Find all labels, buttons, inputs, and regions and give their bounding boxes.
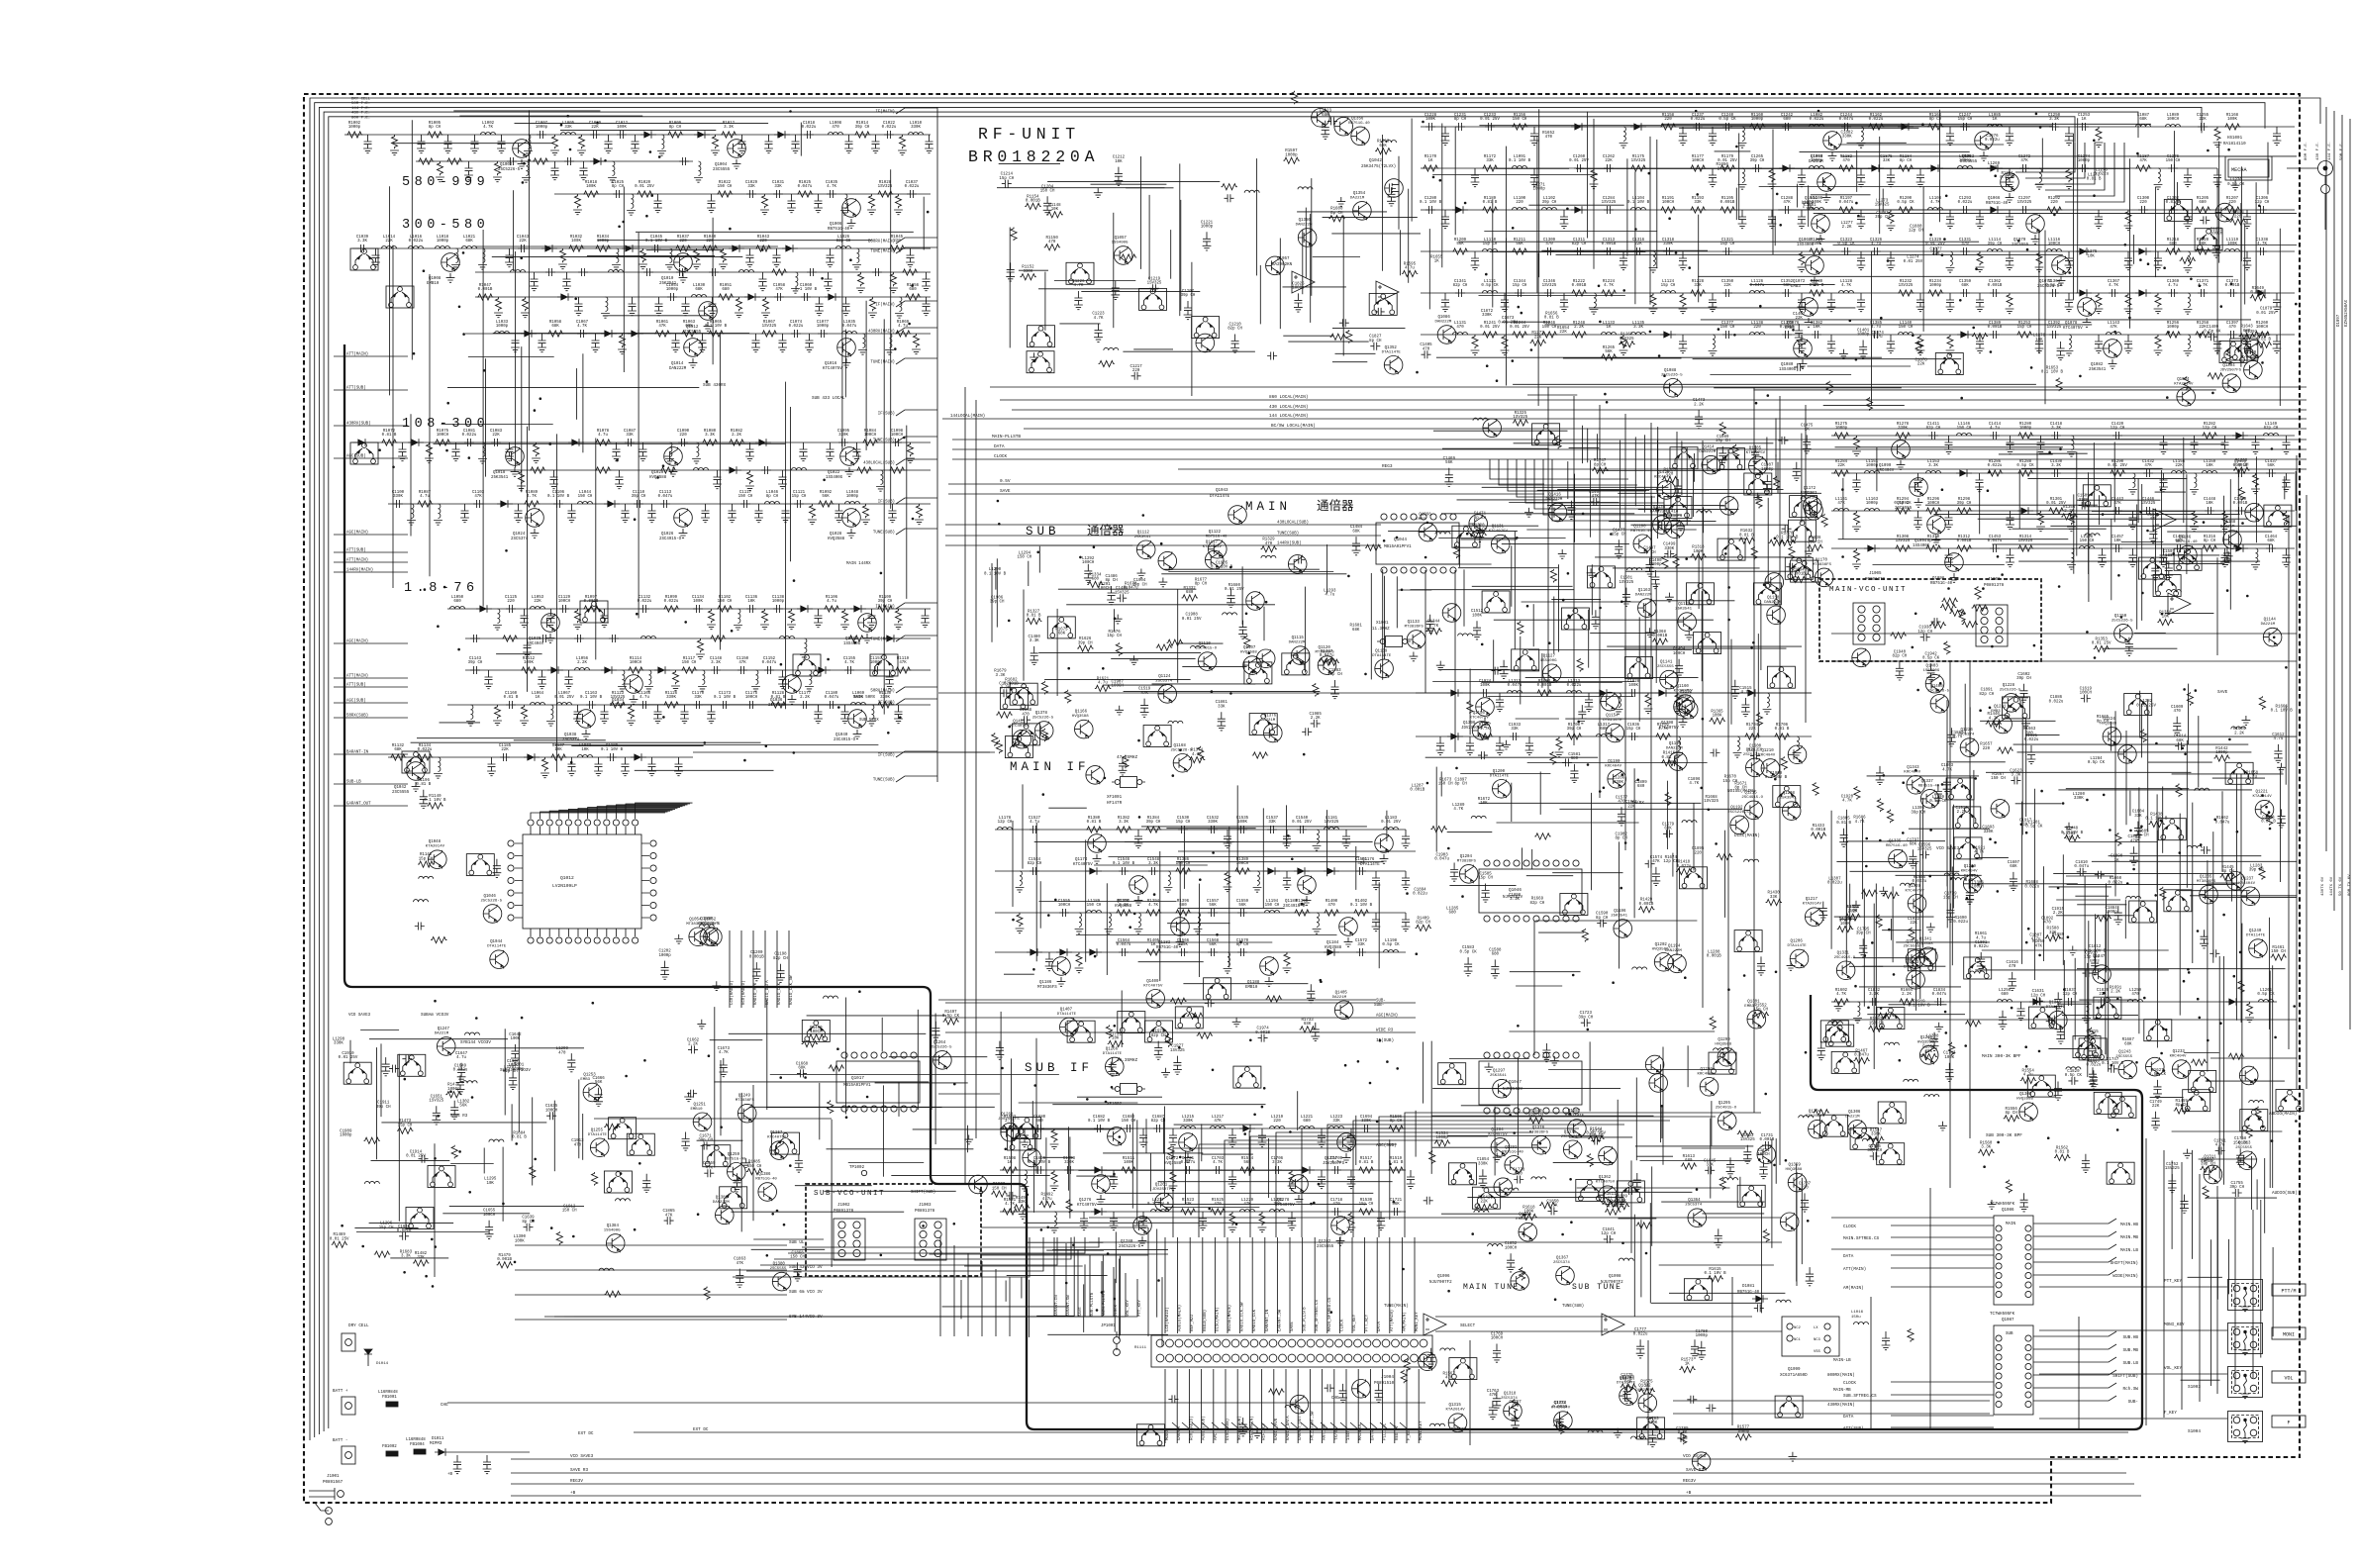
inductor L1019 bbox=[451, 248, 460, 269]
wire bbox=[514, 739, 606, 741]
svg-text:TUNE(SUB): TUNE(SUB) bbox=[873, 778, 895, 783]
svg-text:10K: 10K bbox=[747, 600, 755, 604]
ground bbox=[679, 273, 688, 282]
svg-text:0.1 10V B: 0.1 10V B bbox=[2041, 371, 2064, 375]
capacitor C1264 bbox=[1752, 164, 1762, 172]
ground bbox=[842, 358, 851, 367]
svg-text:Q1235: Q1235 bbox=[2200, 876, 2212, 880]
svg-text:680: 680 bbox=[1571, 757, 1579, 761]
wire bbox=[1774, 216, 1776, 245]
capacitor C1419 bbox=[2112, 432, 2122, 440]
ground bbox=[412, 782, 421, 791]
resistor R1233 bbox=[1927, 290, 1943, 296]
inductor L1051 bbox=[493, 609, 502, 630]
capacitor C1236 bbox=[1693, 123, 1703, 131]
svg-text:470: 470 bbox=[2089, 1060, 2097, 1064]
capacitor C1061 bbox=[815, 297, 824, 316]
svg-text:RADIO_AVR: RADIO_AVR bbox=[754, 982, 758, 1005]
resistor R1090 bbox=[808, 504, 817, 525]
svg-text:0.001B: 0.001B bbox=[1639, 903, 1654, 907]
resistor R1270 bbox=[1530, 340, 1546, 345]
wire bbox=[1484, 231, 1657, 233]
svg-text:330K: 330K bbox=[1663, 243, 1673, 246]
svg-text:150 CH: 150 CH bbox=[682, 661, 697, 665]
board edge hatching bbox=[1172, 1422, 1408, 1429]
wire bbox=[1922, 186, 1924, 332]
svg-text:3.3K: 3.3K bbox=[711, 661, 721, 665]
svg-text:MAIN.HB: MAIN.HB bbox=[2120, 1223, 2138, 1227]
capacitor C1399 bbox=[2273, 335, 2282, 353]
wire bbox=[1833, 245, 2298, 246]
capacitor C1190 bbox=[621, 757, 630, 776]
resistor R1210 bbox=[1512, 248, 1527, 254]
svg-text:Q1046: Q1046 bbox=[1509, 888, 1522, 893]
svg-text:100CH: 100CH bbox=[1673, 652, 1686, 656]
transistor Q1079 bbox=[1794, 340, 1813, 358]
svg-text:470: 470 bbox=[574, 1143, 582, 1147]
wire bbox=[2093, 442, 2095, 507]
capacitor C1458 bbox=[2128, 548, 2137, 567]
capacitor C1476 bbox=[1615, 539, 1623, 558]
svg-text:Q1026: Q1026 bbox=[661, 533, 674, 537]
inductor L1122 bbox=[1590, 293, 1599, 314]
svg-text:470: 470 bbox=[2043, 922, 2051, 926]
wire bbox=[2255, 456, 2257, 542]
diode D1015 bbox=[408, 439, 424, 446]
svg-text:Q1044: Q1044 bbox=[490, 940, 503, 944]
svg-text:0.001B: 0.001B bbox=[1811, 829, 1825, 833]
wire bbox=[1978, 518, 2248, 520]
svg-text:25C5226-5: 25C5226-5 bbox=[2111, 619, 2133, 623]
svg-text:68K: 68K bbox=[1058, 633, 1066, 637]
wire AGC(MAIN) bbox=[334, 534, 408, 536]
resistor R1008 bbox=[667, 132, 683, 138]
inductor L1032 bbox=[495, 332, 510, 335]
resistor R1161 bbox=[1868, 124, 1884, 130]
svg-text:Q1403: Q1403 bbox=[1926, 665, 1939, 669]
svg-text:470: 470 bbox=[2009, 965, 2016, 969]
resistor R1269 bbox=[2226, 351, 2232, 365]
inductor L1009 bbox=[909, 133, 924, 136]
transistor Q1031 bbox=[858, 614, 877, 633]
wire bbox=[1838, 144, 2004, 146]
svg-text:CLOCK: CLOCK bbox=[1340, 1319, 1344, 1331]
wire 430RX(SUB) bbox=[334, 425, 408, 427]
svg-text:150u: 150u bbox=[1851, 1316, 1861, 1320]
diode pack D1066 bbox=[1664, 497, 1692, 519]
svg-text:0.81 B: 0.81 B bbox=[1836, 822, 1851, 826]
capacitor C1030 bbox=[773, 190, 783, 198]
ground bbox=[630, 695, 638, 704]
svg-text:39p CH: 39p CH bbox=[2249, 869, 2264, 873]
svg-text:68K: 68K bbox=[2139, 118, 2147, 122]
svg-text:680: 680 bbox=[1186, 591, 1194, 595]
diode D1014 bbox=[354, 439, 370, 446]
wire bbox=[560, 129, 716, 131]
svg-text:0.81 B: 0.81 B bbox=[382, 434, 397, 438]
svg-text:68K: 68K bbox=[1624, 1380, 1632, 1384]
capacitor C1119 bbox=[781, 504, 790, 523]
svg-text:33K: 33K bbox=[1511, 728, 1519, 732]
svg-text:FB1001: FB1001 bbox=[382, 1396, 397, 1400]
svg-text:0.81 B: 0.81 B bbox=[2087, 178, 2102, 182]
svg-text:150 CH: 150 CH bbox=[718, 185, 733, 189]
svg-text:SUB-: SUB- bbox=[2128, 1400, 2138, 1405]
svg-text:680: 680 bbox=[1516, 1173, 1523, 1177]
wire chain rail bbox=[1421, 334, 2295, 336]
wire bbox=[1738, 134, 1740, 220]
wire chain rail bbox=[1421, 167, 2217, 169]
capacitor C1145 bbox=[538, 670, 546, 689]
resistor R1188 bbox=[1482, 207, 1498, 213]
svg-text:39p CH: 39p CH bbox=[2016, 677, 2031, 681]
svg-text:SUB 300-3K BPF: SUB 300-3K BPF bbox=[1986, 1133, 2022, 1138]
resistor R1238 bbox=[2154, 293, 2163, 314]
capacitor C1183 bbox=[487, 757, 496, 776]
svg-text:68K: 68K bbox=[1352, 629, 1360, 633]
capacitor C1071 bbox=[751, 334, 760, 352]
inductor L1139 bbox=[1899, 333, 1914, 336]
svg-text:12p CH: 12p CH bbox=[2063, 993, 2078, 997]
capacitor C1176 bbox=[800, 701, 810, 709]
diode D1048 bbox=[1987, 164, 2003, 172]
svg-text:1SV325: 1SV325 bbox=[1602, 201, 1617, 205]
wire bbox=[411, 741, 761, 743]
svg-text:EARANT_SW: EARANT_SW bbox=[1278, 1309, 1282, 1331]
capacitor C1322 bbox=[1841, 247, 1851, 255]
svg-text:Q1046: Q1046 bbox=[484, 895, 497, 899]
svg-text:1000p: 1000p bbox=[348, 126, 361, 130]
capacitor C1375 bbox=[1679, 335, 1688, 353]
capacitor C1038 bbox=[357, 245, 367, 252]
pin 2 Q1012 bbox=[538, 820, 543, 826]
svg-text:4.7u: 4.7u bbox=[1976, 936, 1986, 940]
svg-text:2.2K: 2.2K bbox=[1574, 326, 1584, 330]
svg-text:MAIN: MAIN bbox=[2006, 1223, 2016, 1226]
svg-text:0.047u: 0.047u bbox=[1839, 201, 1854, 205]
capacitor C1120 bbox=[794, 500, 804, 508]
svg-text:1K: 1K bbox=[1008, 1161, 1013, 1165]
svg-text:MIPM3: MIPM3 bbox=[430, 1442, 442, 1446]
diode D1010 bbox=[825, 293, 840, 301]
svg-text:4.7u: 4.7u bbox=[1042, 1198, 1052, 1202]
wire bbox=[1679, 127, 1918, 129]
svg-text:39p CH: 39p CH bbox=[1856, 932, 1871, 936]
capacitor C1294 bbox=[1976, 210, 1985, 229]
svg-text:100CH: 100CH bbox=[891, 434, 904, 438]
svg-text:KTC4075V: KTC4075V bbox=[767, 1136, 787, 1140]
svg-text:330K: 330K bbox=[1842, 136, 1852, 140]
wire bbox=[2244, 225, 2246, 305]
inductor L1043 bbox=[578, 502, 593, 505]
svg-text:TUNE(MAIN): TUNE(MAIN) bbox=[870, 360, 895, 365]
svg-text:2.2K: 2.2K bbox=[732, 434, 741, 438]
svg-text:12p CH: 12p CH bbox=[2030, 994, 2045, 998]
ground bbox=[2031, 235, 2040, 244]
transistor Q1023 bbox=[526, 509, 544, 528]
pin 19 Q1012 bbox=[585, 937, 591, 943]
svg-text:EMB10: EMB10 bbox=[1245, 986, 1258, 990]
net stub IF(SUB) bbox=[896, 751, 937, 757]
svg-text:680: 680 bbox=[1449, 912, 1457, 916]
wire bbox=[1528, 204, 1623, 206]
svg-text:4.7u: 4.7u bbox=[2247, 776, 2257, 780]
diode D1061 bbox=[2232, 432, 2248, 440]
svg-text:KTC4075V: KTC4075V bbox=[2063, 327, 2083, 331]
svg-text:0.01 25V: 0.01 25V bbox=[1569, 159, 1589, 163]
svg-text:3.3K: 3.3K bbox=[1928, 464, 1938, 468]
wire bbox=[1796, 184, 1798, 208]
svg-text:Q1306: Q1306 bbox=[1848, 1111, 1861, 1115]
svg-text:0.022u: 0.022u bbox=[1691, 118, 1706, 122]
svg-text:Q1066: Q1066 bbox=[1988, 197, 2001, 201]
svg-text:100CH: 100CH bbox=[1757, 1153, 1770, 1157]
svg-text:Q1350: Q1350 bbox=[1299, 219, 1312, 223]
wire bbox=[788, 931, 790, 1008]
capacitor C1118 bbox=[754, 504, 763, 523]
resistor R1306 bbox=[1852, 548, 1861, 569]
transistor Q1001 bbox=[513, 140, 532, 158]
svg-text:10K: 10K bbox=[2113, 539, 2121, 543]
svg-text:8p CH: 8p CH bbox=[1900, 159, 1913, 163]
resistor R1111 bbox=[521, 667, 537, 673]
resistor R1033 bbox=[595, 245, 611, 251]
wire chain rail bbox=[447, 608, 931, 610]
svg-text:0.1 10V B: 0.1 10V B bbox=[1420, 201, 1442, 205]
capacitor C1459 bbox=[2159, 548, 2168, 567]
svg-text:4.7K: 4.7K bbox=[827, 185, 836, 189]
svg-text:J1002: J1002 bbox=[837, 1204, 850, 1208]
resistor R1010 bbox=[711, 135, 720, 155]
diode D1062 bbox=[1956, 469, 1972, 477]
svg-text:Q1247: Q1247 bbox=[438, 1028, 450, 1031]
capacitor C1051 bbox=[628, 297, 637, 316]
svg-text:VOL_KEY: VOL_KEY bbox=[1353, 1314, 1357, 1331]
resistor R1071 bbox=[381, 440, 397, 445]
capacitor C1078 bbox=[398, 442, 407, 461]
inductor L1158 bbox=[2203, 471, 2217, 474]
svg-text:33K: 33K bbox=[774, 185, 782, 189]
resistor R1155 bbox=[1512, 124, 1527, 130]
diode D1021 bbox=[797, 605, 813, 613]
svg-text:2SC5374: 2SC5374 bbox=[1553, 1261, 1570, 1265]
svg-text:0.022u: 0.022u bbox=[2250, 291, 2265, 295]
capacitor C1080 bbox=[464, 439, 474, 446]
pin L3 Q1012 bbox=[508, 877, 514, 883]
wire bbox=[1753, 389, 2215, 391]
svg-text:1K: 1K bbox=[1993, 118, 1998, 122]
svg-text:470: 470 bbox=[1842, 159, 1850, 163]
wire AGC(SUB) bbox=[334, 702, 408, 704]
svg-text:Q1405: Q1405 bbox=[1335, 991, 1348, 995]
svg-text:680: 680 bbox=[2001, 993, 2009, 997]
svg-text:0.001B: 0.001B bbox=[497, 1258, 512, 1262]
svg-text:56K: 56K bbox=[1605, 350, 1613, 354]
svg-text:L1016: L1016 bbox=[1851, 1311, 1864, 1315]
svg-text:144TX: 144TX bbox=[1347, 1427, 1351, 1440]
svg-text:4.7K: 4.7K bbox=[1094, 317, 1104, 321]
capacitor C1191 bbox=[647, 757, 656, 776]
svg-text:39p CH: 39p CH bbox=[878, 600, 893, 604]
resistor R1204 bbox=[2195, 207, 2210, 213]
wire bbox=[1170, 230, 1172, 279]
svg-text:DTA114TE: DTA114TE bbox=[2046, 1006, 2066, 1010]
wire bbox=[2255, 182, 2257, 293]
svg-text:SUB.MB: SUB.MB bbox=[2123, 1348, 2139, 1353]
svg-text:EARANT-SW: EARANT-SW bbox=[1067, 1295, 1071, 1317]
svg-text:RB751G-40: RB751G-40 bbox=[828, 228, 850, 232]
transistor Q1009 bbox=[674, 253, 693, 272]
svg-text:0.01 25V: 0.01 25V bbox=[1510, 326, 1529, 330]
bus MAIN-PLLSTB bbox=[952, 439, 2307, 441]
svg-text:Q1210: Q1210 bbox=[1761, 749, 1774, 753]
svg-text:KTC4075V: KTC4075V bbox=[1143, 984, 1163, 988]
svg-text:Q1221: Q1221 bbox=[2256, 791, 2269, 795]
capacitor C1151 bbox=[764, 666, 774, 674]
inductor L1023 bbox=[612, 248, 621, 269]
svg-text:39p CH: 39p CH bbox=[1181, 294, 1196, 298]
resistor R1066 bbox=[761, 331, 777, 337]
svg-text:Q1359: Q1359 bbox=[1789, 1164, 1802, 1168]
wire bbox=[1814, 213, 2297, 215]
capacitor C1184 bbox=[500, 753, 510, 761]
inductor L1061 bbox=[805, 670, 814, 691]
pin 12 Q1012 bbox=[633, 820, 638, 826]
svg-text:10K: 10K bbox=[2206, 464, 2213, 468]
capacitor C1257 bbox=[1471, 168, 1480, 187]
ground bbox=[1915, 498, 1923, 507]
resistor R1141 bbox=[418, 861, 434, 867]
transistor Q1067 bbox=[1812, 215, 1830, 234]
wire bbox=[1140, 156, 1142, 269]
diode D1017 bbox=[755, 439, 771, 446]
svg-text:1K: 1K bbox=[1434, 260, 1439, 264]
svg-text:8p CH: 8p CH bbox=[612, 185, 625, 189]
capacitor C1144 bbox=[484, 670, 493, 689]
capacitor C1076 bbox=[818, 330, 828, 338]
svg-text:15p CH: 15p CH bbox=[1513, 284, 1527, 288]
transistor Q1021 bbox=[840, 447, 859, 466]
svg-text:SUB IF: SUB IF bbox=[1025, 1061, 1093, 1075]
svg-text:68K: 68K bbox=[695, 288, 703, 292]
svg-text:2SC4915-O: 2SC4915-O bbox=[834, 738, 856, 742]
bus BC/SW LOCAL(MAIN) bbox=[1024, 428, 2307, 430]
diode D1013 bbox=[628, 330, 643, 338]
svg-text:KTA2014V: KTA2014V bbox=[1803, 903, 1822, 907]
resistor R1019 bbox=[637, 191, 652, 197]
svg-text:10K: 10K bbox=[1480, 802, 1488, 806]
svg-text:IF(SUB): IF(SUB) bbox=[878, 500, 895, 505]
resistor R1023 bbox=[760, 194, 769, 215]
resistor R1064 bbox=[708, 331, 724, 337]
capacitor C1319 bbox=[1679, 251, 1688, 270]
inductor L1029 bbox=[692, 295, 707, 298]
svg-text:150 CH: 150 CH bbox=[1176, 862, 1191, 866]
resistor R1042 bbox=[755, 245, 771, 251]
svg-text:430 LOCAL(MAIN): 430 LOCAL(MAIN) bbox=[1269, 405, 1309, 410]
svg-text:BATT -: BATT - bbox=[333, 1438, 347, 1443]
wire bbox=[2073, 134, 2075, 301]
capacitor C1208 bbox=[1111, 281, 1120, 300]
svg-text:8p CH: 8p CH bbox=[2006, 1112, 2018, 1116]
svg-text:Q1052: Q1052 bbox=[704, 918, 717, 922]
svg-text:330K: 330K bbox=[1478, 1162, 1488, 1166]
resistor R1255 bbox=[2165, 332, 2181, 338]
wire IC fan bbox=[616, 805, 687, 819]
wire bbox=[2098, 495, 2100, 525]
transistor Q1033 bbox=[625, 675, 643, 694]
svg-text:Q1380: Q1380 bbox=[773, 1263, 786, 1267]
capacitor C1465 bbox=[2282, 548, 2291, 567]
inductor L1006 bbox=[657, 135, 666, 155]
resistor R1173 bbox=[1590, 168, 1599, 189]
svg-text:+B: +B bbox=[1686, 1491, 1692, 1496]
svg-text:1000p: 1000p bbox=[512, 1068, 525, 1072]
capacitor C1366 bbox=[2109, 289, 2118, 297]
svg-text:MAIN 50RX: MAIN 50RX bbox=[853, 696, 876, 700]
capacitor C1286 bbox=[1768, 210, 1777, 229]
svg-text:22K: 22K bbox=[1748, 728, 1756, 732]
capacitor C1140 bbox=[867, 609, 876, 628]
svg-text:SYB 144VCO 3V: SYB 144VCO 3V bbox=[789, 1315, 823, 1320]
svg-text:NJU7007F2: NJU7007F2 bbox=[1601, 1281, 1623, 1285]
svg-text:Q1087: Q1087 bbox=[2002, 1319, 2014, 1323]
svg-text:MAIN_SFTREG.CS: MAIN_SFTREG.CS bbox=[1328, 1297, 1332, 1331]
diode D1055 bbox=[2135, 289, 2151, 297]
svg-text:DTA114TE: DTA114TE bbox=[1788, 944, 1808, 948]
svg-text:0.022u: 0.022u bbox=[2094, 173, 2109, 177]
wire 144RX(MAIN) bbox=[334, 571, 408, 573]
resistor R1147 bbox=[1046, 212, 1062, 218]
svg-text:DISC(SUB): DISC(SUB) bbox=[1226, 1419, 1230, 1440]
svg-text:12p CH: 12p CH bbox=[2255, 201, 2270, 205]
wire bbox=[1593, 119, 1595, 269]
capacitor C1102 bbox=[473, 500, 483, 508]
svg-text:DA221M: DA221M bbox=[1332, 996, 1347, 1000]
svg-text:Q1261: Q1261 bbox=[1155, 1184, 1168, 1188]
capacitor C1179 bbox=[827, 701, 836, 709]
transistor Q1069 bbox=[2026, 215, 2045, 234]
wire chain rail bbox=[1421, 209, 2295, 211]
svg-text:KTC4075V: KTC4075V bbox=[1077, 1204, 1097, 1208]
inductor L1144 bbox=[2184, 335, 2193, 355]
capacitor C1011 bbox=[617, 131, 627, 139]
net stub 430RX(MAIN) bbox=[896, 328, 937, 334]
diode pack D1035 bbox=[402, 751, 430, 773]
svg-text:47K: 47K bbox=[1140, 692, 1148, 696]
inductor L1147 bbox=[2067, 436, 2076, 456]
transistor Q1095 bbox=[1945, 553, 1964, 572]
wire bbox=[865, 301, 867, 450]
svg-text:680: 680 bbox=[909, 288, 917, 292]
inductor L1047 bbox=[845, 502, 860, 505]
svg-text:VOL: VOL bbox=[2284, 1376, 2293, 1382]
svg-text:MAIN IF: MAIN IF bbox=[1010, 760, 1090, 774]
resistor R1216 bbox=[2035, 251, 2044, 272]
svg-text:0.001B: 0.001B bbox=[1791, 573, 1806, 577]
svg-text:XF1001: XF1001 bbox=[1107, 796, 1123, 800]
resistor R1261 bbox=[2208, 373, 2223, 379]
svg-text:0.1 10V B: 0.1 10V B bbox=[1350, 904, 1373, 908]
svg-text:Q1088: Q1088 bbox=[1664, 369, 1677, 373]
svg-text:DAN222M: DAN222M bbox=[1435, 321, 1452, 325]
diode pack D1060 bbox=[1935, 353, 1963, 375]
svg-text:Q1148: Q1148 bbox=[2223, 521, 2236, 525]
svg-text:Q1243: Q1243 bbox=[2118, 1051, 2131, 1055]
wire bbox=[621, 704, 894, 706]
svg-text:15p CH: 15p CH bbox=[1661, 284, 1676, 288]
diode D1016 bbox=[568, 439, 584, 446]
